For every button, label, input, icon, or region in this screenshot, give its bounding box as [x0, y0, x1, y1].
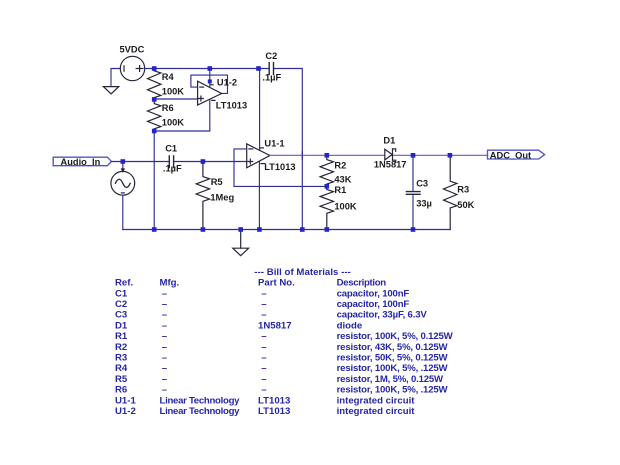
wire 5V rail	[145, 68, 269, 70]
resistor R4	[148, 69, 161, 100]
svg-text:–: –	[261, 310, 267, 321]
op-amp U1-1	[247, 144, 270, 168]
wire Audio_In to C1	[111, 161, 168, 163]
svg-text:R5: R5	[211, 177, 223, 187]
svg-text:–: –	[162, 363, 168, 374]
svg-text:R3: R3	[115, 353, 127, 364]
capacitor C3	[406, 192, 420, 195]
svg-text:diode: diode	[337, 320, 363, 331]
junction dot Audio_In tap	[121, 159, 126, 164]
svg-text:–: –	[261, 288, 267, 299]
wire U1-1 output net to ADC_Out (highlighted)	[270, 154, 488, 156]
svg-text:LT1013: LT1013	[216, 101, 247, 111]
svg-text:resistor, 1M, 5%, 0.125W: resistor, 1M, 5%, 0.125W	[337, 374, 444, 385]
svg-text:R2: R2	[334, 160, 346, 170]
wire U1-2 V+ pin	[209, 69, 211, 88]
svg-text:Part No.: Part No.	[258, 278, 295, 289]
wire U1-1 feedback to divider R2 R1	[234, 149, 327, 187]
svg-text:–: –	[162, 374, 168, 385]
BOM row C2	[115, 299, 409, 310]
ground symbol G2	[233, 248, 249, 256]
BOM row U1-1	[115, 395, 415, 406]
svg-text:–: –	[162, 320, 168, 331]
svg-text:Linear Technology: Linear Technology	[160, 395, 241, 406]
wire C3 bottom	[412, 195, 414, 229]
wire U1-1 V+ pin from 5V rail	[259, 69, 261, 151]
wire C1 to U1-1 plus input	[174, 161, 247, 163]
wire R6 bottom to U1-2 V- pin	[154, 100, 210, 131]
svg-text:1Meg: 1Meg	[210, 192, 234, 202]
svg-text:C1: C1	[115, 288, 128, 299]
wire R6 bottom down to bottom rail	[153, 131, 155, 230]
svg-text:100K: 100K	[334, 202, 357, 212]
svg-text:–: –	[261, 342, 267, 353]
svg-text:resistor, 50K, 5%, 0.125W: resistor, 50K, 5%, 0.125W	[337, 353, 449, 364]
ground symbol G1	[103, 87, 118, 94]
junction dot R4 R6 midpoint	[152, 97, 157, 102]
junction dot R6 bottom	[152, 129, 157, 134]
svg-text:U1-1: U1-1	[115, 395, 136, 406]
wire C3 top	[412, 155, 414, 191]
BOM header row	[115, 278, 386, 289]
wire U1-1 V- pin to bottom rail	[258, 161, 260, 229]
svg-text:–: –	[162, 385, 168, 396]
svg-text:–: –	[162, 342, 168, 353]
svg-text:C2: C2	[265, 51, 277, 61]
svg-text:Mfg.: Mfg.	[160, 278, 180, 289]
junction dots output line	[325, 153, 453, 158]
svg-text:R1: R1	[334, 185, 346, 195]
svg-text:R4: R4	[115, 363, 128, 374]
svg-text:resistor, 100K, 5%, 0.125W: resistor, 100K, 5%, 0.125W	[337, 331, 454, 342]
svg-text:capacitor, 100nF: capacitor, 100nF	[337, 299, 410, 310]
svg-text:resistor, 100K, 5%, .125W: resistor, 100K, 5%, .125W	[337, 363, 449, 374]
svg-text:U1-2: U1-2	[115, 406, 136, 417]
svg-text:C1: C1	[165, 143, 177, 153]
resistor R1	[320, 186, 333, 229]
svg-text:–: –	[162, 310, 168, 321]
svg-text:capacitor, 100nF: capacitor, 100nF	[337, 288, 410, 299]
BOM row R1	[115, 331, 454, 342]
BOM row R6	[115, 385, 449, 396]
svg-text:ADC_Out: ADC_Out	[490, 150, 531, 160]
op-amp U1-2	[198, 81, 222, 105]
svg-text:–: –	[261, 385, 267, 396]
pin dot U1-2 V+	[208, 79, 212, 83]
svg-text:100K: 100K	[162, 117, 185, 127]
svg-text:R1: R1	[115, 331, 128, 342]
resistor R5	[196, 162, 209, 230]
wire C2 right to bottom rail	[274, 69, 303, 230]
BOM row R5	[115, 374, 444, 385]
svg-text:–: –	[162, 288, 168, 299]
wire 5V source left to ground	[111, 69, 120, 87]
wire AC source to bottom rail	[122, 195, 124, 229]
svg-text:integrated circuit: integrated circuit	[337, 406, 416, 417]
junction dots bottom rail	[152, 227, 415, 232]
svg-text:D1: D1	[383, 135, 395, 145]
svg-text:–: –	[162, 299, 168, 310]
svg-text:100K: 100K	[162, 87, 185, 97]
AC source VG1	[111, 171, 135, 195]
capacitor C2	[269, 63, 273, 75]
svg-text:U1-2: U1-2	[217, 77, 237, 87]
junction dot C1 R5 node	[201, 159, 206, 164]
svg-text:C2: C2	[115, 299, 127, 310]
BOM row D1	[115, 320, 362, 331]
svg-text:Audio_In: Audio_In	[61, 157, 101, 167]
junction dots 5V rail	[152, 66, 261, 71]
svg-text:resistor, 100K, 5%, .125W: resistor, 100K, 5%, .125W	[337, 385, 449, 396]
svg-text:–: –	[162, 331, 168, 342]
svg-text:LT1013: LT1013	[264, 162, 295, 172]
svg-text:integrated circuit: integrated circuit	[337, 395, 416, 406]
svg-text:U1-1: U1-1	[264, 138, 284, 148]
BOM row C3	[115, 310, 427, 321]
svg-text:1N5817: 1N5817	[374, 159, 407, 169]
svg-text:1N5817: 1N5817	[258, 320, 292, 331]
svg-text:.1µF: .1µF	[163, 164, 182, 174]
svg-text:–: –	[261, 299, 267, 310]
diode D1 1N5817	[385, 149, 396, 163]
svg-text:R5: R5	[115, 374, 128, 385]
svg-text:R6: R6	[162, 103, 174, 113]
node flag ADC_Out	[488, 150, 545, 159]
wire ground bottom rail	[123, 229, 450, 231]
svg-text:D1: D1	[115, 320, 128, 331]
svg-text:capacitor, 33µF, 6.3V: capacitor, 33µF, 6.3V	[337, 310, 428, 321]
node flag Audio_In	[53, 157, 111, 166]
wire ground stub G2	[240, 230, 242, 249]
BOM row R4	[115, 363, 449, 374]
svg-text:33µ: 33µ	[416, 199, 432, 209]
svg-text:43K: 43K	[334, 175, 351, 185]
svg-text:–: –	[261, 353, 267, 364]
svg-text:.1µF: .1µF	[262, 73, 281, 83]
svg-text:R6: R6	[115, 385, 127, 396]
capacitor C1	[169, 156, 173, 168]
wire divider midpoint to U1-2 plus input	[154, 98, 197, 100]
svg-text:Description: Description	[337, 278, 387, 289]
wire U1-2 feedback loop	[191, 75, 228, 93]
svg-text:–: –	[261, 331, 267, 342]
wire crossing segment C2 branch over output line	[301, 152, 303, 160]
BOM row C1	[115, 288, 409, 299]
svg-text:resistor, 43K, 5%, 0.125W: resistor, 43K, 5%, 0.125W	[337, 342, 449, 353]
svg-text:R3: R3	[457, 185, 469, 195]
svg-text:LT1013: LT1013	[258, 406, 290, 417]
svg-text:5VDC: 5VDC	[120, 45, 145, 55]
wire Audio_In tap down to AC source	[122, 162, 124, 169]
svg-text:Linear Technology: Linear Technology	[160, 406, 241, 417]
junction dot R2 R1 midpoint	[325, 184, 330, 189]
resistor R3	[444, 155, 457, 229]
svg-text:–: –	[261, 374, 267, 385]
svg-text:–: –	[162, 353, 168, 364]
svg-text:LT1013: LT1013	[258, 395, 290, 406]
svg-text:R4: R4	[162, 72, 175, 82]
BOM row U1-2	[115, 406, 415, 417]
BOM row R2	[115, 342, 449, 353]
AC source VG1 arrow	[121, 168, 126, 172]
svg-text:--- Bill of Materials ---: --- Bill of Materials ---	[254, 267, 350, 278]
BOM row R3	[115, 353, 449, 364]
voltage source V1 5VDC	[120, 56, 144, 80]
svg-text:–: –	[261, 363, 267, 374]
svg-text:C3: C3	[416, 178, 428, 188]
svg-text:50K: 50K	[457, 200, 474, 210]
svg-text:R2: R2	[115, 342, 127, 353]
resistor R6	[148, 99, 161, 131]
svg-text:Ref.: Ref.	[115, 278, 133, 289]
resistor R2	[320, 155, 333, 186]
svg-text:C3: C3	[115, 310, 127, 321]
